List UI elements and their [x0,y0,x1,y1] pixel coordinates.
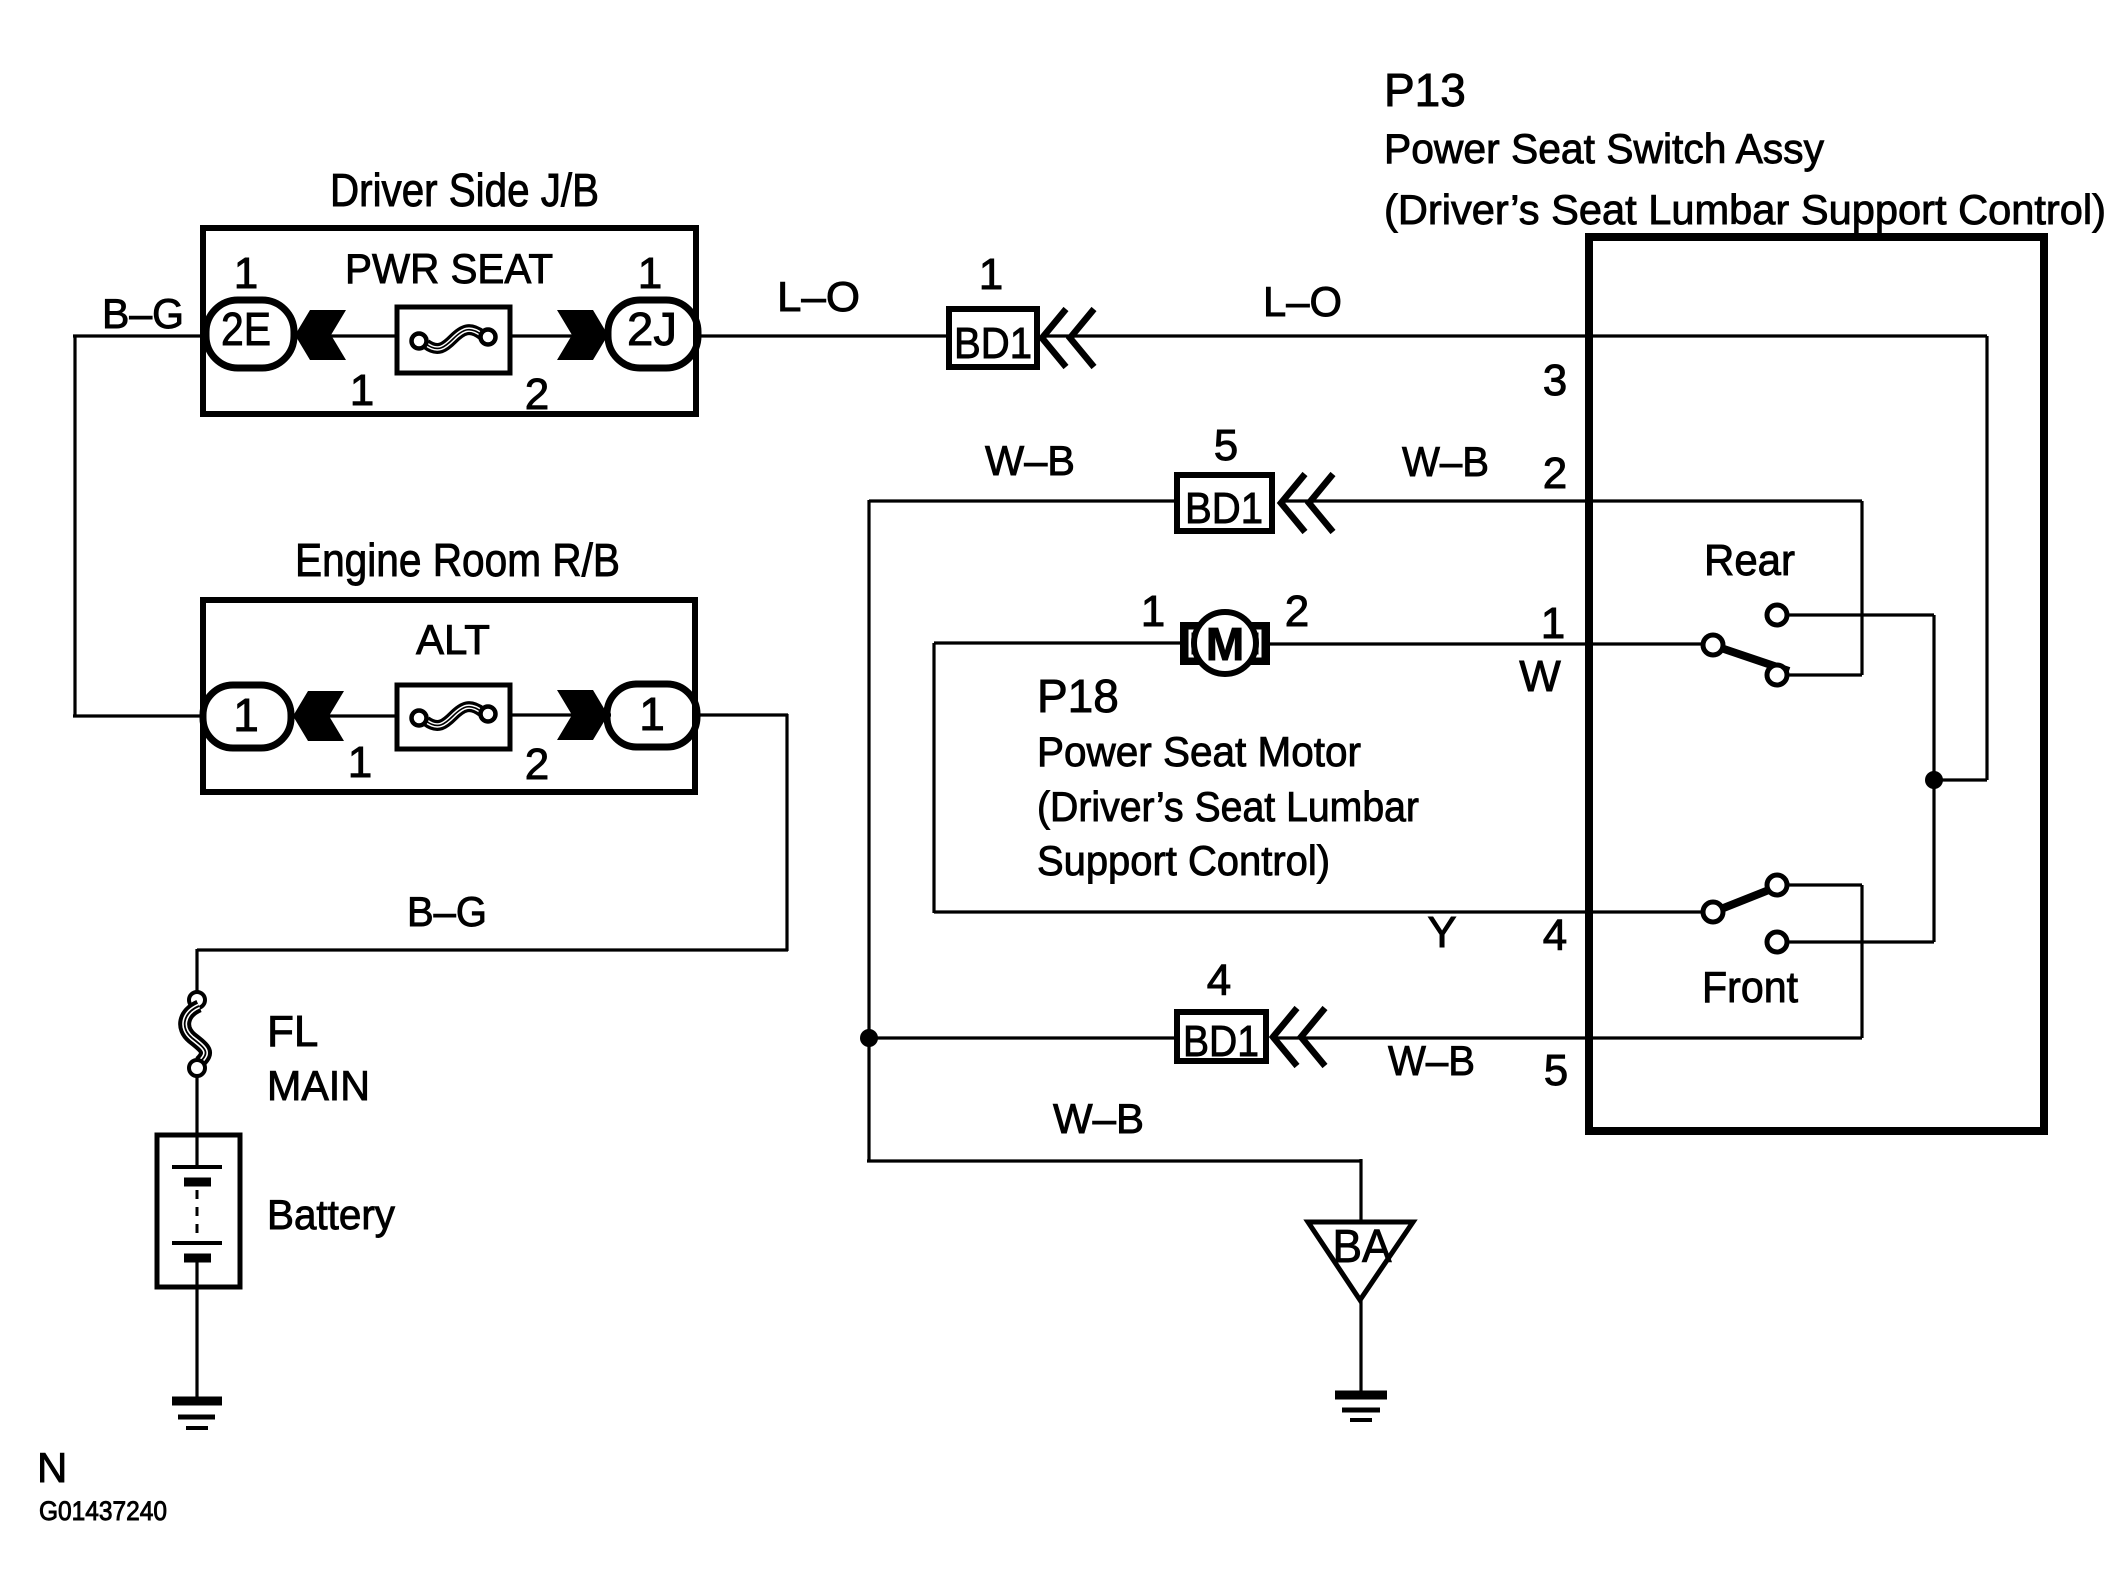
wire vertical down to B-G run [785,714,788,951]
fuse PWR SEAT [397,307,510,373]
arrow chevrons BD1 (4) [1273,1008,1325,1066]
svg-text:Driver Side J/B: Driver Side J/B [330,164,599,216]
switch Front [1703,875,1789,952]
node junction dot W-B [860,1029,878,1047]
wire L-O from BD1 to P13 pin 3 [1044,334,1987,337]
wire front top contact [1786,883,1862,886]
arrow left (to 1) [293,691,344,741]
junction box Driver Side J/B [203,228,696,414]
svg-text:BD1: BD1 [954,319,1032,368]
wire motor loop bottom (Y) [934,910,1705,913]
switch Front label [1702,963,1798,1012]
svg-text:B–G: B–G [102,290,184,337]
svg-text:W–B: W–B [985,437,1075,484]
battery [157,1135,240,1287]
svg-text:1: 1 [348,738,372,787]
wire B-G vertical [73,335,76,717]
relay box Engine Room R/B [203,600,695,792]
svg-text:3: 3 [1543,356,1567,405]
svg-text:1: 1 [234,249,258,298]
svg-text:BD1: BD1 [1185,484,1263,533]
svg-text:PWR SEAT: PWR SEAT [345,245,553,292]
switch Rear [1703,605,1789,685]
svg-text:4: 4 [1543,911,1567,960]
arrow left (to 2E) [295,310,346,360]
pin 4 label [1543,911,1567,960]
wire W-B from BD1(5) left to vertical [869,499,1174,502]
connector 2E [206,300,294,368]
wire junction to pin3 line [1934,778,1987,781]
svg-text:(Driver’s Seat Lumbar Support: (Driver’s Seat Lumbar Support Control) [1384,186,2106,233]
svg-text:B–G: B–G [407,888,487,935]
wire label L-O (second) [1263,278,1342,325]
wire W-B to ground triangle [867,1159,1361,1162]
svg-text:2: 2 [525,740,549,789]
wire rear top contact [1786,613,1934,616]
wire label W-B (pin 2) [1402,438,1489,485]
pin 5 label [1544,1046,1568,1095]
svg-text:ALT: ALT [416,616,490,663]
svg-text:4: 4 [1207,956,1231,1005]
svg-text:1: 1 [350,366,374,415]
connector BD1 (5) [1177,475,1272,533]
svg-text:Power Seat Switch Assy: Power Seat Switch Assy [1384,125,1824,172]
svg-text:Battery: Battery [267,1191,395,1238]
svg-text:G01437240: G01437240 [39,1496,167,1526]
wire W-B from BD1(5) to switch [1283,499,1862,502]
svg-text:2J: 2J [627,303,677,355]
wire label B-G [102,290,184,337]
motor M P18 [1180,612,1270,674]
wire W-B vertical left [867,500,870,1038]
arrow chevrons BD1 (5) [1281,474,1333,532]
svg-text:2: 2 [525,370,549,419]
pin 2 label below fuse [525,370,549,419]
note label N [37,1444,67,1491]
wire motor pin2 to rear switch [1268,642,1705,645]
pin 5 label above BD1 [1214,421,1238,470]
pin 1 label motor [1141,587,1165,636]
battery label [267,1191,395,1238]
component label P18 [1037,670,1419,884]
wire fuse row inside R/B [292,715,611,716]
pin 2 label motor [1285,587,1309,636]
fuse label ALT [416,616,490,663]
wire label W-B (pin 5) [1388,1037,1475,1084]
wire fuse row inside J/B [295,334,611,337]
wire label W-B (ground run) [1053,1095,1144,1142]
wire front bottom contact [1786,940,1934,943]
wire BA to ground [1359,1300,1362,1392]
wire label L-O [777,273,860,320]
connector 1 (left) [203,685,291,748]
fuse ALT [397,685,510,749]
wire rear bottom vertical to pin2 [1860,501,1863,675]
switch assembly box P13 [1589,237,2044,1131]
wire from right connector [697,713,788,716]
wire B-G to connector 2E [73,334,205,337]
connector BD1 (4) [1177,1012,1266,1066]
svg-text:Power Seat Motor: Power Seat Motor [1037,728,1361,775]
svg-text:L–O: L–O [1263,278,1342,325]
arrow right (to 2J) [557,310,608,360]
svg-text:1: 1 [1541,599,1565,648]
ground connector BA [1308,1220,1413,1300]
svg-text:BA: BA [1333,1220,1392,1272]
svg-text:Engine Room R/B: Engine Room R/B [295,534,620,586]
svg-text:1: 1 [1141,587,1165,636]
svg-text:P18: P18 [1037,670,1119,722]
svg-text:W–B: W–B [1388,1037,1475,1084]
figure number G01437240 [39,1496,167,1526]
svg-text:1: 1 [639,688,665,740]
arrow chevrons BD1 (1) [1042,309,1094,367]
component label P13 [1384,64,2106,233]
wire rear bottom contact [1786,673,1862,676]
svg-text:5: 5 [1214,421,1238,470]
ground symbol (BA) [1335,1395,1387,1420]
svg-text:1: 1 [979,250,1003,299]
wire to left connector 1 [73,714,205,717]
wire W-B down from junction [867,1038,870,1161]
connector 1 (right) [607,684,697,747]
svg-text:(Driver’s Seat Lumbar: (Driver’s Seat Lumbar [1037,783,1419,830]
svg-text:BD1: BD1 [1183,1017,1259,1066]
wire down to fusible link [195,949,198,993]
svg-text:5: 5 [1544,1046,1568,1095]
wire label Y [1427,908,1456,957]
pin 1 label [1541,599,1565,648]
pin 1 label below arrow [350,366,374,415]
svg-text:2: 2 [1285,587,1309,636]
svg-text:Support Control): Support Control) [1037,837,1330,884]
fuse label PWR SEAT [345,245,553,292]
svg-text:2: 2 [1543,449,1567,498]
pin 4 label above BD1 [1207,956,1231,1005]
svg-text:1: 1 [233,689,259,741]
svg-text:Rear: Rear [1704,536,1795,585]
wire label W-B (left of BD1 5) [985,437,1075,484]
wire motor loop left vertical [932,643,935,913]
wire pin 3 internal vertical [1985,336,1988,780]
svg-text:Y: Y [1427,908,1456,957]
wire down to BA [1359,1159,1362,1222]
arrow right (to 1) [557,690,608,740]
wire battery to ground [195,1260,198,1398]
svg-text:FL: FL [267,1007,318,1056]
junction box label "Driver Side J/B" [330,164,599,216]
pin 1 label (2J) [638,249,662,298]
wire label W [1519,652,1561,701]
relay box label "Engine Room R/B" [295,534,620,586]
svg-text:1: 1 [638,249,662,298]
pin 2 label [1543,449,1567,498]
svg-text:P13: P13 [1384,64,1466,116]
wire label B-G (lower) [407,888,487,935]
wire to battery [195,1076,198,1167]
svg-text:W–B: W–B [1402,438,1489,485]
svg-text:M: M [1206,618,1244,670]
pin 1 label above BD1 [979,250,1003,299]
svg-text:W: W [1519,652,1561,701]
fusible link label FL MAIN [267,1007,370,1109]
svg-text:L–O: L–O [777,273,860,320]
wire motor pin1 to loop [934,641,1182,644]
pin 1 label below arrow (R/B) [348,738,372,787]
svg-text:W–B: W–B [1053,1095,1144,1142]
wire W-B to BD1(4) [869,1036,1174,1039]
connector 2J [608,300,698,368]
svg-text:MAIN: MAIN [267,1062,370,1109]
pin 1 label (2E) [234,249,258,298]
wire switch common vertical [1932,615,1935,942]
fusible link FL MAIN [185,992,206,1076]
wire L-O from 2J to BD1 [699,334,946,337]
pin 2 label below fuse (R/B) [525,740,549,789]
svg-text:N: N [37,1444,67,1491]
ground symbol (battery) [172,1401,222,1428]
wire front top vertical to pin5 [1860,885,1863,1038]
svg-text:Front: Front [1702,963,1798,1012]
connector BD1 (1) [949,309,1037,368]
wire W-B from BD1(4) to pin5 [1275,1036,1862,1039]
pin 3 label [1543,356,1567,405]
wire B-G run [197,948,788,951]
svg-text:2E: 2E [221,303,271,355]
switch Rear label [1704,536,1795,585]
node junction dot [1925,771,1943,789]
